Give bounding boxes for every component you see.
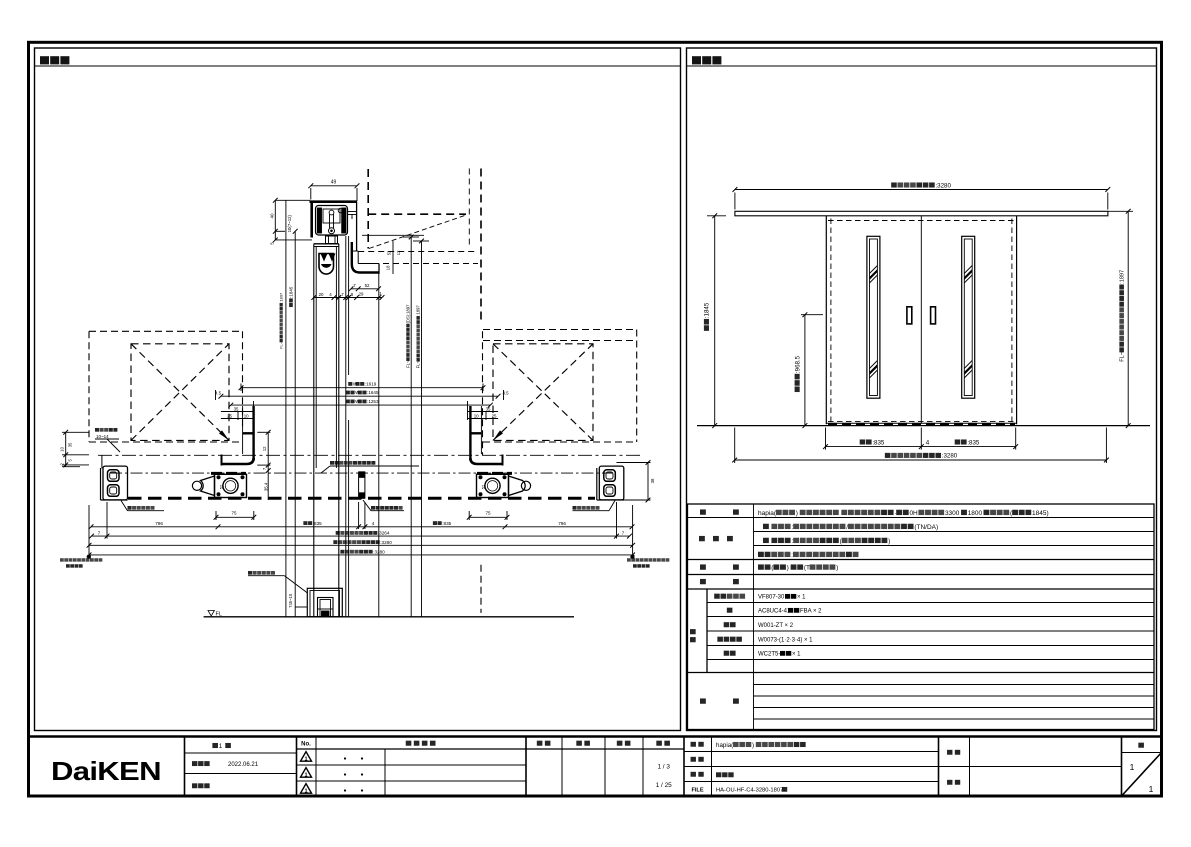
plan dim 1619 — [239, 382, 486, 391]
plan right frame post — [470, 406, 504, 466]
svg-text:hapia(: hapia( — [758, 510, 777, 517]
front door outline — [826, 216, 1016, 424]
svg-text:W001-ZT × 2: W001-ZT × 2 — [758, 623, 794, 629]
svg-text:FL~: FL~ — [416, 361, 421, 369]
floor stopper bracket — [307, 588, 342, 617]
tb 改訂日 — [192, 783, 210, 788]
svg-text:× 1: × 1 — [792, 652, 801, 658]
front top rail — [735, 211, 1108, 216]
front dim FL-1897 right — [1108, 209, 1133, 428]
plan dim 1645 — [219, 390, 501, 398]
plan 木ずり寸法 label — [95, 428, 120, 452]
label 下ストッパー floor — [248, 571, 308, 593]
svg-text:10~14: 10~14 — [96, 434, 109, 439]
svg-text:): ) — [787, 565, 789, 572]
spec value 仕上1 — [763, 524, 938, 531]
tb 改訂履歴 header — [406, 741, 436, 746]
svg-text:): ) — [796, 510, 798, 517]
svg-text::3280: :3280 — [942, 453, 958, 460]
plan wall bottom dashed left — [89, 441, 243, 443]
svg-text::1645: :1645 — [367, 390, 379, 395]
svg-text:1: 1 — [1130, 762, 1135, 772]
plan right X-box — [493, 344, 593, 441]
cs dim 40 — [269, 198, 312, 245]
svg-text::1845: :1845 — [704, 302, 711, 318]
plan right wall top dashed — [483, 330, 637, 341]
spec value 扉 — [758, 608, 822, 615]
track dim 38 right — [646, 460, 655, 502]
svg-text:FBA × 2: FBA × 2 — [800, 609, 822, 615]
svg-text::1897: :1897 — [416, 305, 421, 316]
tb No header — [301, 742, 311, 748]
right panel title strip line — [687, 65, 1157, 67]
spec value 吊戸レール — [758, 594, 806, 601]
cs dashed slope diagonal — [369, 215, 466, 249]
svg-text:52: 52 — [387, 250, 392, 255]
plan left X-box — [131, 344, 229, 441]
svg-text:2022.06.21: 2022.06.21 — [228, 762, 259, 768]
svg-text:52: 52 — [218, 484, 223, 489]
svg-text:(TN/DA): (TN/DA) — [914, 524, 938, 531]
spec sublabel 扉 — [727, 608, 733, 613]
front left door window — [865, 236, 882, 398]
track right carriage — [477, 474, 531, 497]
svg-text:W0073-(1·2·3·4) × 1: W0073-(1·2·3·4) × 1 — [758, 638, 813, 644]
cs dashed vertical 469 — [468, 169, 470, 249]
svg-text:25: 25 — [227, 413, 232, 418]
svg-text::3280: :3280 — [373, 549, 385, 554]
svg-text:FL~: FL~ — [1120, 351, 1126, 362]
svg-text::835: :835 — [967, 439, 980, 446]
cs dashed vertical 481 — [480, 169, 482, 322]
svg-text:745~10: 745~10 — [288, 593, 293, 608]
svg-text:/: / — [846, 524, 848, 531]
svg-text:1: 1 — [304, 772, 307, 778]
spec label 品番 — [690, 629, 696, 642]
cs roller housing — [316, 206, 357, 236]
tb 名称 — [691, 742, 704, 747]
cs wall face upper — [356, 202, 358, 251]
floor line — [204, 616, 574, 618]
svg-text::1845: :1845 — [289, 286, 294, 298]
svg-text::835: :835 — [442, 521, 451, 526]
svg-text:1: 1 — [1149, 784, 1154, 794]
svg-text:4: 4 — [372, 521, 375, 526]
svg-text::3264: :3264 — [378, 531, 390, 536]
svg-text:40: 40 — [269, 213, 274, 219]
svg-text:FL: FL — [216, 612, 222, 618]
svg-text:FL~: FL~ — [405, 360, 410, 368]
tb 見積 — [691, 757, 704, 762]
svg-text:1845): 1845) — [1032, 510, 1049, 517]
svg-text:1800: 1800 — [968, 510, 983, 517]
label レールエンドキャップ left — [60, 558, 102, 567]
tb 承認 — [537, 741, 551, 746]
svg-text::: : — [791, 552, 793, 559]
spec value 型式 — [758, 510, 1049, 517]
front dim 取手高:968.5 — [794, 312, 823, 428]
svg-text:1: 1 — [304, 788, 307, 794]
cs dashed soffit lines — [358, 252, 478, 264]
svg-text:1 / 25: 1 / 25 — [656, 782, 672, 789]
spec label 把手 — [700, 564, 739, 569]
svg-text:0H: 0H — [909, 510, 918, 517]
svg-text:35.4: 35.4 — [264, 482, 269, 491]
svg-text:(DS):1897: (DS):1897 — [405, 304, 410, 323]
cs dim 49 — [308, 180, 359, 202]
DAIKEN logo — [51, 757, 161, 786]
right panel title 正面図 — [692, 56, 721, 64]
plan left small dims — [59, 430, 89, 467]
plan wall face chain line — [98, 454, 641, 456]
plan wall left end stub — [101, 455, 103, 468]
plan right wall face dashed — [482, 331, 484, 455]
left panel title 断面図 — [40, 56, 69, 64]
svg-text:75: 75 — [232, 511, 238, 516]
spec value 仕上3 — [758, 552, 858, 559]
spec value 出隅 — [758, 651, 801, 658]
spec value 引手 — [758, 623, 794, 629]
svg-text:HA-OU-HF-C4-3280-1807-: HA-OU-HF-C4-3280-1807- — [716, 788, 785, 794]
tb rev triangle 1 — [301, 752, 312, 763]
svg-text:hapia(: hapia( — [716, 742, 734, 749]
svg-text::835: :835 — [872, 439, 885, 446]
tb 図名 — [691, 772, 704, 777]
plan left wall top dashed — [89, 330, 243, 332]
svg-text:10: 10 — [244, 413, 249, 418]
track heavy dashed rail — [128, 497, 595, 500]
plan dim 3280a — [87, 540, 635, 548]
svg-text::968.5: :968.5 — [794, 355, 801, 373]
tb 制定日 — [192, 761, 259, 768]
cs door right face — [338, 244, 340, 617]
plan small dims left — [215, 390, 254, 420]
plan left wall face dashed — [242, 331, 244, 430]
plan dim 3264 — [89, 502, 632, 539]
svg-text:(T: (T — [804, 565, 810, 572]
cs small dims row1 — [349, 283, 381, 291]
right panel border — [687, 48, 1157, 731]
svg-text::835: :835 — [313, 521, 322, 526]
tb rev triangle 3 — [301, 784, 312, 795]
svg-text:× 1: × 1 — [797, 595, 806, 601]
tb 図名 value — [716, 772, 734, 777]
track thick segment left — [211, 472, 246, 475]
cs door inner skin lines — [316, 247, 336, 469]
track centerline chain — [110, 472, 613, 474]
tb page diagonal — [1122, 753, 1162, 797]
cs dim line 295 (1845) — [287, 214, 298, 616]
front floor line — [697, 425, 1150, 427]
tb scale 1/3 — [657, 764, 670, 771]
track 軸組 label — [321, 461, 419, 473]
front door center stile — [920, 216, 922, 423]
plan wall bottom dashed right — [483, 441, 637, 443]
label 下ストッパー left — [121, 501, 164, 511]
svg-text::1253: :1253 — [367, 399, 379, 404]
svg-text:35: 35 — [486, 406, 491, 411]
spec sublabel 錠前類し — [717, 637, 742, 642]
plan dim 75 left — [214, 511, 257, 520]
cs wall line 379 down — [378, 274, 380, 617]
spec value 錠前 — [758, 638, 813, 644]
cs dim line 421 (FL~1897) — [413, 239, 429, 617]
tb scale 1/25 — [656, 782, 672, 789]
label 引分け戸当たり center — [363, 500, 404, 511]
cs soffit small dims — [386, 241, 402, 274]
spec label 金具 — [700, 579, 739, 584]
svg-text:12: 12 — [396, 250, 401, 255]
spec table grid — [688, 504, 1155, 730]
front dim 扉高:1845 — [704, 213, 726, 428]
tb 作成 — [617, 741, 631, 746]
tb rev triangle 2 — [301, 768, 312, 779]
plan right wall end dashed — [636, 330, 638, 443]
tb name value — [716, 742, 806, 749]
tb rev dots — [344, 757, 363, 791]
front pocket dashed frame — [828, 219, 1015, 423]
svg-text:796: 796 — [155, 521, 163, 526]
cs casing thick L — [352, 242, 379, 273]
plan small dims right — [468, 390, 510, 420]
cs dashed ceiling line — [368, 213, 466, 215]
svg-text:AC8UC4-41: AC8UC4-41 — [758, 609, 791, 615]
svg-text:35: 35 — [67, 442, 72, 447]
track center guide — [359, 472, 365, 499]
svg-text:10(7~12): 10(7~12) — [287, 214, 292, 232]
svg-text:): ) — [836, 565, 838, 572]
cs hanger bolt — [326, 236, 338, 244]
svg-text:10: 10 — [59, 446, 64, 451]
tb 件名 — [947, 750, 960, 755]
track thick segment right — [477, 472, 512, 475]
spec value 把手 — [758, 564, 838, 571]
svg-text:52: 52 — [480, 484, 485, 489]
svg-text:796: 796 — [558, 521, 566, 526]
svg-text:1 / 3: 1 / 3 — [657, 764, 670, 771]
svg-text:FL~: FL~ — [279, 341, 284, 349]
svg-text:FILE: FILE — [691, 788, 703, 794]
svg-text:35: 35 — [234, 406, 239, 411]
svg-text:1: 1 — [219, 743, 223, 750]
spec sublabel 引手 — [724, 622, 736, 627]
spec sublabel 出隅 — [724, 651, 736, 656]
cs rail top cap — [310, 200, 358, 203]
track right stopper bracket — [597, 463, 651, 501]
cs dim line 286 (FL~1897) — [279, 200, 286, 617]
svg-text:25: 25 — [492, 413, 497, 418]
cs soffit step — [351, 251, 379, 274]
svg-text:52: 52 — [365, 283, 370, 288]
svg-text:VF807-30: VF807-30 — [758, 595, 785, 601]
front dim 835-4-835 line — [823, 428, 1018, 450]
track left carriage — [192, 474, 246, 497]
plan left frame post — [221, 406, 255, 466]
front dim 上レール外寸法:3280 text — [891, 182, 951, 189]
title block grid — [29, 737, 1162, 797]
front right door window — [960, 236, 977, 398]
svg-text::3280: :3280 — [935, 182, 951, 189]
plan dim 75 right — [467, 511, 510, 520]
left panel title strip line — [35, 65, 681, 67]
svg-text:10: 10 — [474, 413, 479, 418]
cs rail left bar — [310, 201, 313, 238]
svg-text:): ) — [752, 742, 754, 749]
tb 部屋 — [947, 780, 960, 785]
spec value 仕上2 — [763, 538, 890, 545]
track left stopper bracket — [101, 466, 128, 500]
front bottom guide thick dashes — [828, 423, 1015, 426]
svg-text:DaiKEN: DaiKEN — [51, 757, 161, 786]
svg-text:12: 12 — [262, 446, 267, 451]
svg-text:): ) — [888, 538, 890, 545]
cs dim line 411 (FL~1897) — [403, 235, 419, 617]
tb 確認 — [576, 741, 590, 746]
front dim 835-4-835 texts — [860, 439, 980, 446]
svg-text:29: 29 — [359, 292, 364, 297]
svg-text:38: 38 — [650, 478, 655, 483]
svg-text:49: 49 — [331, 180, 337, 186]
spec label 型式 — [700, 509, 739, 514]
plan left wall end dashed — [88, 331, 90, 442]
svg-text:4: 4 — [926, 439, 930, 446]
tb 第1版 — [212, 743, 230, 750]
svg-text:WC2T5-: WC2T5- — [758, 652, 780, 658]
tb 頁 — [1138, 743, 1144, 748]
cs dashed vertical 368 — [367, 169, 369, 249]
tb 縮尺 — [656, 741, 670, 746]
tb FILE — [691, 788, 703, 794]
front dim 下ストッパー外寸法:3280 — [732, 428, 1109, 464]
cs handle recess — [319, 254, 336, 275]
front left handle — [907, 307, 912, 324]
svg-text::1619: :1619 — [365, 382, 377, 387]
svg-text::1897: :1897 — [279, 293, 284, 303]
cs door top edge — [314, 244, 339, 247]
svg-text:3300: 3300 — [945, 510, 960, 517]
plan dim 1253 — [228, 399, 492, 407]
cs finish pair lines — [346, 236, 349, 617]
plan dim 3280b — [87, 505, 635, 558]
front dim 上レール外寸法:3280 line — [733, 187, 1111, 209]
left panel border — [35, 48, 681, 731]
spec sublabel 吊戸レール — [714, 594, 745, 599]
svg-text::: : — [791, 538, 793, 545]
svg-text:75: 75 — [486, 511, 492, 516]
tb FILE value — [716, 787, 787, 794]
plan dim row 796-835-4-835-796 — [89, 502, 635, 529]
floor dim 745 — [288, 593, 307, 608]
svg-text:No.: No. — [301, 742, 311, 748]
FL marker — [208, 611, 222, 618]
front right handle — [931, 307, 936, 324]
cs rail set top line — [362, 234, 424, 236]
cs small dims row2 — [311, 291, 384, 300]
svg-text:1: 1 — [304, 756, 307, 762]
svg-text::: : — [791, 524, 793, 531]
svg-text::1897: :1897 — [1120, 270, 1126, 284]
cs door left face — [313, 244, 315, 617]
floor dashed wall line — [480, 565, 482, 613]
spec label 仕上げ — [699, 536, 733, 541]
svg-text::3280: :3280 — [380, 540, 392, 545]
label レールエンドキャップ right — [627, 558, 669, 567]
svg-text:20: 20 — [319, 292, 324, 297]
svg-text:18: 18 — [386, 265, 391, 270]
cs dim 12-52 small — [257, 430, 270, 500]
label 下ストッパー right — [573, 501, 616, 511]
spec label 備考 — [700, 698, 739, 703]
